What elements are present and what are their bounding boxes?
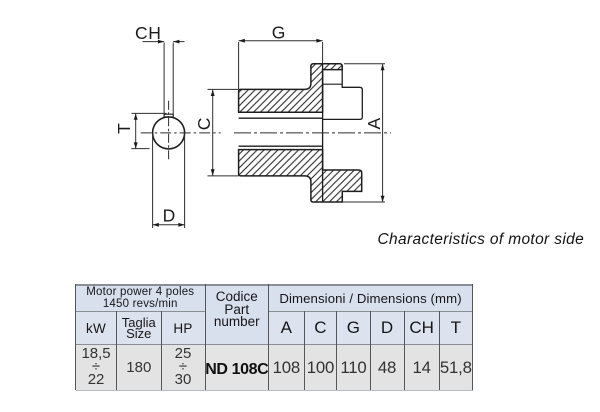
data part number xyxy=(205,345,269,391)
main centerline xyxy=(234,132,391,134)
caption: characteristics of motor side xyxy=(378,231,593,249)
data kw xyxy=(76,345,117,391)
dimension T extension lines xyxy=(132,112,167,114)
data C xyxy=(304,345,337,391)
keyway slot xyxy=(164,114,173,118)
dimension A extension lines xyxy=(344,63,385,65)
header D xyxy=(370,312,404,345)
header C xyxy=(304,312,337,345)
header T xyxy=(439,312,472,345)
dimension G extension lines xyxy=(238,42,240,89)
header kW xyxy=(76,312,117,345)
data G xyxy=(337,345,370,391)
header dimensioni xyxy=(269,285,473,312)
header codice part number xyxy=(205,285,269,345)
dimension D line with arrows xyxy=(153,224,185,226)
header G xyxy=(337,312,370,345)
data hp xyxy=(161,345,205,391)
svg-text:G: G xyxy=(272,22,286,42)
dimension D extension lines xyxy=(152,134,154,229)
svg-text:A: A xyxy=(364,118,384,130)
dimension C line with arrows xyxy=(212,90,214,176)
header HP xyxy=(161,312,205,345)
bore top line xyxy=(239,117,323,119)
dimension CH arrows and lines xyxy=(143,41,165,43)
svg-text:C: C xyxy=(194,118,214,131)
dimension G line with arrows xyxy=(239,40,323,42)
flange face vertical line xyxy=(322,64,324,202)
header taglia size xyxy=(117,312,161,345)
header A xyxy=(269,312,304,345)
jaw tooth outline xyxy=(323,66,363,119)
header CH xyxy=(404,312,439,345)
data T xyxy=(439,345,472,391)
dimension CH extension lines xyxy=(163,43,165,115)
main section: lower hatched region xyxy=(239,150,362,202)
table grid lines xyxy=(76,284,473,286)
main section: upper hatched region xyxy=(239,64,343,112)
data A xyxy=(269,345,304,391)
svg-text:T: T xyxy=(114,123,134,134)
shaft bore circle (end view) xyxy=(153,117,185,149)
data taglia xyxy=(117,345,161,391)
svg-text:D: D xyxy=(163,206,176,226)
centerline horizontal (end view) xyxy=(141,132,221,134)
data CH xyxy=(404,345,439,391)
centerline vertical (end view) xyxy=(168,101,170,160)
header motor power xyxy=(76,285,206,312)
dimension T line with arrows xyxy=(135,114,137,149)
jaw tooth inner edge line xyxy=(323,83,343,85)
bore bottom line xyxy=(239,145,323,147)
dimension A line with arrows xyxy=(382,64,384,202)
data D xyxy=(370,345,404,391)
dimension C extension lines xyxy=(208,88,239,90)
svg-text:CH: CH xyxy=(135,23,161,43)
